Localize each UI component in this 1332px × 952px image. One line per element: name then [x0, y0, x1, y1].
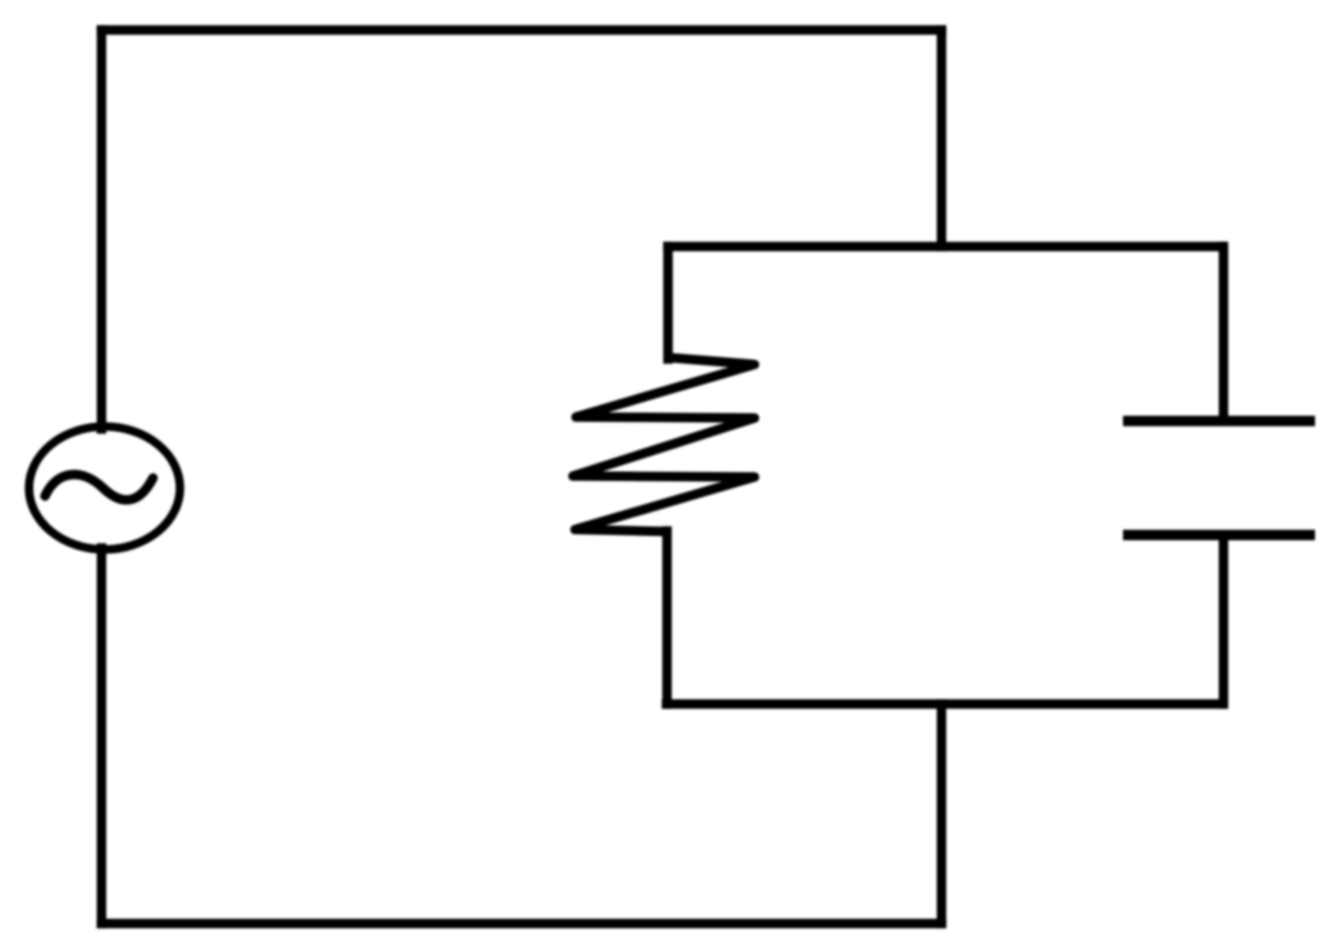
resistor R1: zigzag body — [573, 358, 755, 532]
capacitor C1: top plate — [1123, 416, 1315, 427]
wire: inner loop bottom horizontal — [667, 699, 1223, 709]
wire: resistor branch top stem — [663, 247, 673, 360]
wire: resistor branch bottom stem — [662, 531, 672, 704]
wire: right vertical lower segment (inner-loop bottom down to bottom wire) — [937, 704, 947, 924]
wire: capacitor branch bottom stem — [1219, 536, 1229, 704]
wire: right vertical upper segment (top wire down to inner-loop top) — [937, 30, 947, 247]
capacitor C1: bottom plate — [1123, 530, 1315, 541]
wire: left vertical upper segment (top wire to AC source) — [97, 30, 107, 429]
wire: top horizontal of outer loop — [102, 25, 942, 35]
wire: left vertical lower segment (AC source to bottom wire) — [97, 548, 107, 924]
AC source V1: circle body — [29, 427, 180, 550]
AC source V1: sine-wave symbol — [45, 475, 153, 500]
wire: bottom horizontal of outer loop — [102, 919, 942, 929]
wire: capacitor branch top stem — [1219, 247, 1229, 421]
wire: inner loop top horizontal — [668, 242, 1222, 252]
